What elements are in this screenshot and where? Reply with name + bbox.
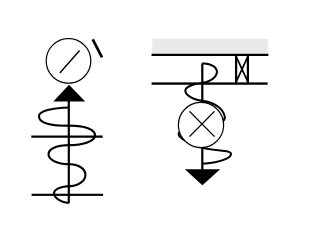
duct: top line xyxy=(152,54,269,56)
gauge needle: diagonal slash inside circle xyxy=(60,51,80,74)
slab: gray bar (right group) xyxy=(152,39,268,54)
wire: left vertical riser xyxy=(68,99,70,203)
tick mark outside circle (upper right) xyxy=(93,39,102,57)
coil: right corkscrew xyxy=(179,63,231,163)
fan circle with white fill (drawn over coil) xyxy=(178,102,223,147)
damper box: right bar xyxy=(247,56,249,82)
wire: right vertical drop xyxy=(201,63,203,169)
arrowhead: filled triangle pointing up xyxy=(53,85,85,102)
coil: left auger spiral xyxy=(39,108,95,203)
fan X inside circle xyxy=(190,111,215,136)
wire: upper horizontal line (left group) xyxy=(31,136,102,138)
gauge circle (left) xyxy=(46,39,91,84)
duct: bottom line xyxy=(152,82,268,84)
wire: lower horizontal line (left group) xyxy=(32,194,104,196)
arrowhead: filled triangle pointing down xyxy=(185,169,220,185)
damper box: left bar xyxy=(235,56,237,82)
damper X xyxy=(236,56,248,82)
